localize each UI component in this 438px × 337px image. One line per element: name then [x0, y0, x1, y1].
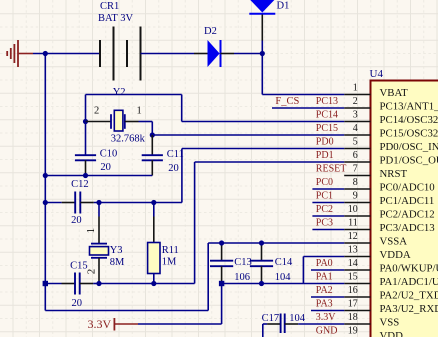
designator CR1: [100, 1, 119, 12]
wire to pin 8: [312, 188, 344, 190]
pin 1 of U4 (pin line): [344, 94, 370, 96]
svg-text:C13: C13: [234, 257, 252, 268]
svg-text:104: 104: [289, 313, 306, 324]
value 106: [234, 272, 250, 283]
designator C14: [275, 257, 293, 268]
node Y3 top junction: [96, 200, 101, 205]
pin number 4: [353, 123, 358, 134]
designator R11: [162, 245, 179, 256]
svg-text:20: 20: [72, 298, 83, 309]
pin name PC1/ADC11: [380, 195, 435, 207]
pin number 1 of Y2: [137, 106, 142, 117]
pin name VBAT: [380, 87, 409, 99]
net label PA2: [316, 285, 333, 296]
pin name PC15/OSC32_OUT: [380, 128, 438, 140]
node square C15 left: [43, 281, 48, 286]
net label PD1: [316, 150, 334, 161]
svg-text:4: 4: [353, 123, 358, 134]
designator C13: [234, 257, 252, 268]
designator C12: [71, 179, 89, 190]
svg-text:PD1: PD1: [316, 150, 334, 161]
net label PC2: [316, 204, 333, 215]
net label RESET: [316, 164, 347, 175]
wire OSC32 top (Y2 left to PC14 riser): [86, 95, 345, 122]
node D1/VBAT junction: [260, 51, 265, 56]
svg-text:2: 2: [94, 106, 99, 117]
svg-text:D1: D1: [277, 1, 290, 12]
svg-text:VDD: VDD: [380, 330, 404, 337]
microcontroller U4 body: [371, 81, 438, 337]
diode D1: [249, 0, 275, 41]
pin name PD0/OSC_IN: [380, 141, 438, 153]
pin name PC14/OSC32_IN: [380, 114, 438, 126]
pin number 7: [353, 164, 358, 175]
capacitor C12: [45, 192, 94, 214]
svg-text:9: 9: [353, 191, 358, 202]
pin name PA2/U2_TXD: [380, 290, 438, 302]
value 8M: [110, 257, 125, 268]
wire left ground rail: [44, 54, 46, 311]
wire to pin 14: [311, 269, 344, 271]
wire to pin 9: [312, 202, 344, 204]
pin number 9: [353, 191, 358, 202]
pin number 14: [348, 258, 358, 269]
value 20 (C12): [71, 215, 82, 226]
pin number 10: [348, 204, 358, 215]
svg-text:10: 10: [348, 204, 358, 215]
pin 4 of U4 (pin line): [344, 134, 370, 136]
pin number 3: [353, 110, 358, 121]
svg-text:7: 7: [353, 164, 358, 175]
svg-text:1M: 1M: [162, 257, 177, 268]
svg-text:PA3: PA3: [316, 299, 333, 310]
capacitor C14: [250, 243, 273, 284]
designator C17: [262, 313, 280, 324]
node square C13 bottom: [219, 281, 224, 286]
designator C10: [100, 149, 118, 160]
pin 15 of U4 (pin line): [344, 283, 370, 285]
pin 8 of U4 (pin line): [344, 188, 370, 190]
capacitor C11: [142, 135, 163, 176]
wire to pin 16: [311, 296, 344, 298]
svg-text:F_CS: F_CS: [275, 96, 299, 107]
svg-text:VBAT: VBAT: [380, 87, 409, 99]
svg-text:104: 104: [275, 272, 292, 283]
svg-text:CR1: CR1: [100, 1, 119, 12]
wire to pin 10: [312, 215, 344, 217]
svg-text:PD0: PD0: [316, 137, 334, 148]
pin number 11: [348, 218, 358, 229]
capacitor C17: [263, 314, 298, 334]
net label PC15: [316, 123, 338, 134]
pin 16 of U4 (pin line): [344, 296, 370, 298]
svg-text:PA1/ADC1/U2_RTS: PA1/ADC1/U2_RTS: [380, 276, 438, 288]
pin number 8: [353, 177, 358, 188]
designator U4: [370, 68, 384, 80]
svg-text:20: 20: [71, 215, 82, 226]
resistor R11: [148, 203, 160, 284]
svg-text:PC15: PC15: [316, 123, 338, 134]
svg-text:R11: R11: [162, 245, 179, 256]
pin name PC13/ANT1_TAMP: [380, 101, 438, 113]
crystal Y2: [86, 110, 139, 131]
node C14 bottom: [259, 281, 264, 286]
svg-text:Y2: Y2: [113, 87, 126, 98]
svg-text:11: 11: [348, 218, 358, 229]
pin 18 of U4 (pin line): [344, 323, 370, 325]
wire C10/C11 ground rail: [45, 175, 152, 177]
net label PA3: [316, 299, 333, 310]
svg-text:1: 1: [353, 83, 358, 94]
svg-text:C15: C15: [70, 260, 88, 271]
capacitor C10: [75, 122, 96, 176]
value 20 (C11): [168, 163, 179, 174]
svg-text:PA2/U2_TXD: PA2/U2_TXD: [380, 290, 438, 302]
pin name VDD: [380, 330, 404, 337]
net label 3.3V: [316, 312, 337, 323]
svg-text:8M: 8M: [110, 257, 125, 268]
net label PC0: [316, 177, 333, 188]
designator Y3: [110, 245, 123, 256]
node R11 bottom: [151, 281, 156, 286]
svg-text:PA0: PA0: [316, 258, 333, 269]
svg-text:12: 12: [348, 231, 358, 242]
pin 6 of U4 (pin line): [344, 161, 370, 163]
net label GND: [316, 326, 338, 337]
svg-text:6: 6: [353, 150, 358, 161]
svg-text:VDDA: VDDA: [380, 249, 411, 261]
pin name PC3/ADC13: [380, 222, 435, 234]
value 104 (C14): [275, 272, 292, 283]
wire 3.3V rail under C13/C14: [222, 257, 345, 284]
svg-text:19: 19: [348, 326, 358, 337]
node C13 top: [219, 240, 224, 245]
capacitor C15: [62, 273, 94, 295]
net label PC3: [316, 218, 333, 229]
node C12 left: [43, 200, 48, 205]
svg-text:14: 14: [348, 258, 358, 269]
svg-text:8: 8: [353, 177, 358, 188]
wire bottom rail segments: [45, 283, 154, 285]
svg-text:PC3: PC3: [316, 218, 333, 229]
value BAT 3V: [98, 13, 134, 24]
svg-text:PC2/ADC12: PC2/ADC12: [380, 209, 435, 221]
svg-text:PC14: PC14: [316, 110, 338, 121]
svg-text:13: 13: [348, 245, 358, 256]
svg-text:BAT 3V: BAT 3V: [98, 13, 134, 24]
pin name PA1/ADC1/U2_RTS: [380, 276, 438, 288]
power port 3.3V: [114, 318, 138, 331]
svg-text:1: 1: [85, 228, 97, 234]
svg-text:C10: C10: [100, 149, 118, 160]
svg-text:D2: D2: [204, 26, 217, 37]
net label PA1: [316, 272, 333, 283]
svg-text:PA2: PA2: [316, 285, 333, 296]
svg-text:PC0: PC0: [316, 177, 333, 188]
value 20 (C15): [72, 298, 83, 309]
wire node to VBAT pin 1: [262, 54, 344, 95]
pin 7 of U4 (pin line): [344, 175, 370, 177]
svg-text:PC15/OSC32_OUT: PC15/OSC32_OUT: [380, 128, 438, 140]
pin 10 of U4 (pin line): [344, 215, 370, 217]
svg-text:18: 18: [348, 312, 358, 323]
svg-text:3.3V: 3.3V: [88, 317, 112, 331]
pin name VDDA: [380, 249, 411, 261]
svg-text:2: 2: [353, 96, 358, 107]
pin number 1: [353, 83, 358, 94]
svg-text:32.768k: 32.768k: [111, 134, 146, 145]
pin 13 of U4 (pin line): [344, 256, 370, 258]
svg-text:15: 15: [348, 272, 358, 283]
pin 17 of U4 (pin line): [344, 310, 370, 312]
pin number 16: [348, 285, 358, 296]
svg-text:RESET: RESET: [316, 164, 347, 175]
pin number 19: [348, 326, 358, 337]
wire C17 down: [262, 324, 264, 337]
diode D2: [194, 40, 234, 67]
net label 3.3V (power port): [88, 317, 112, 331]
svg-text:PC2: PC2: [316, 204, 333, 215]
svg-text:PC0/ADC10: PC0/ADC10: [380, 182, 435, 194]
pin 9 of U4 (pin line): [344, 202, 370, 204]
svg-text:16: 16: [348, 285, 358, 296]
pin name NRST: [380, 168, 408, 180]
pin 2 of U4 (pin line): [344, 107, 370, 109]
net label PC1: [316, 191, 333, 202]
svg-text:C12: C12: [71, 179, 89, 190]
node C14 top: [259, 240, 264, 245]
pin name PC2/ADC12: [380, 209, 435, 221]
net label PC14: [316, 110, 338, 121]
designator C11: [167, 149, 184, 160]
pin number 12: [348, 231, 358, 242]
svg-text:C17: C17: [262, 313, 280, 324]
pin number 2 of Y2: [94, 106, 99, 117]
wire to pin 11: [312, 229, 344, 231]
node rail left: [43, 173, 48, 178]
designator D2: [204, 26, 217, 37]
svg-text:PC13: PC13: [316, 96, 338, 107]
pin name VSS: [380, 317, 400, 329]
net label F_CS: [275, 96, 299, 107]
pin number 17: [348, 299, 358, 310]
svg-text:3.3V: 3.3V: [316, 312, 337, 323]
svg-text:PA0/WKUP/U2_CTS: PA0/WKUP/U2_CTS: [380, 263, 438, 275]
wire VSSA (gnd to pin 12): [45, 243, 344, 311]
wire to pin 17: [311, 310, 344, 312]
wire F_CS to pin 2: [272, 107, 344, 109]
pin 14 of U4 (pin line): [344, 269, 370, 271]
svg-text:20: 20: [100, 162, 111, 173]
designator C15: [70, 260, 88, 271]
pin number 13: [348, 245, 358, 256]
net label PA0: [316, 258, 333, 269]
node R11 top junction: [151, 200, 156, 205]
svg-text:NRST: NRST: [380, 168, 408, 180]
svg-text:PD1/OSC_OUT: PD1/OSC_OUT: [380, 155, 438, 167]
svg-text:3: 3: [353, 110, 358, 121]
svg-text:VSSA: VSSA: [380, 236, 408, 248]
svg-text:VSS: VSS: [380, 317, 400, 329]
pin 5 of U4 (pin line): [344, 148, 370, 150]
svg-text:20: 20: [168, 163, 179, 174]
svg-text:PA1: PA1: [316, 272, 333, 283]
svg-text:5: 5: [353, 137, 358, 148]
wire D1 to node: [261, 41, 263, 54]
designator D1: [277, 1, 290, 12]
wire 3.3V port to C13 rail: [138, 284, 222, 325]
wire Y2 right to PC15: [139, 122, 345, 136]
wire OSC_OUT (PD1): [154, 162, 344, 284]
svg-text:Y3: Y3: [110, 245, 123, 256]
svg-text:1: 1: [137, 106, 142, 117]
pin number 18: [348, 312, 358, 323]
pin number 15: [348, 272, 358, 283]
pin number 1 of Y3 (rotated): [85, 228, 97, 234]
svg-text:PD0/OSC_IN: PD0/OSC_IN: [380, 141, 438, 153]
svg-text:106: 106: [234, 272, 250, 283]
wire C17 to pin 18: [298, 323, 344, 325]
battery CR1: [100, 27, 141, 81]
pin number 2: [353, 96, 358, 107]
wire Y2 left riser: [85, 95, 87, 122]
value 1M: [162, 257, 177, 268]
svg-text:PC1: PC1: [316, 191, 333, 202]
wire OSC_IN row: [94, 149, 344, 203]
svg-text:17: 17: [348, 299, 358, 310]
wire ground to battery: [33, 53, 100, 55]
node PC15/C11 junction: [150, 132, 155, 137]
net label PC13: [316, 96, 338, 107]
svg-text:PC1/ADC11: PC1/ADC11: [380, 195, 435, 207]
svg-text:GND: GND: [316, 326, 338, 337]
svg-text:C14: C14: [275, 257, 293, 268]
pin 3 of U4 (pin line): [344, 121, 370, 123]
svg-text:PC13/ANT1_TAMP: PC13/ANT1_TAMP: [380, 101, 438, 113]
node C10 bottom: [83, 173, 88, 178]
net label PD0: [316, 137, 334, 148]
pin number 5: [353, 137, 358, 148]
pin name VSSA: [380, 236, 408, 248]
value 20 (C10): [100, 162, 111, 173]
svg-text:PA3/U2_RXD: PA3/U2_RXD: [380, 303, 438, 315]
pin name PC0/ADC10: [380, 182, 435, 194]
node battery junction: [43, 51, 48, 56]
wire battery to D2: [141, 53, 195, 55]
pin number 6: [353, 150, 358, 161]
pin name PD1/OSC_OUT: [380, 155, 438, 167]
svg-text:PC14/OSC32_IN: PC14/OSC32_IN: [380, 114, 438, 126]
pin name PA3/U2_RXD: [380, 303, 438, 315]
pin name PA0/WKUP/U2_CTS: [380, 263, 438, 275]
svg-text:PC3/ADC13: PC3/ADC13: [380, 222, 435, 234]
capacitor C13: [210, 243, 233, 284]
value 104 (C17): [289, 313, 306, 324]
designator Y2: [113, 87, 126, 98]
crystal Y3: [90, 203, 109, 284]
wire D2 to node: [234, 53, 262, 55]
svg-text:U4: U4: [370, 68, 384, 80]
ground: [7, 40, 33, 67]
node Y3 bottom: [96, 281, 101, 286]
node Y2 left: [83, 119, 88, 124]
pin 12 of U4 (pin line): [344, 242, 370, 244]
pin number 2 of Y3 (rotated): [86, 269, 98, 275]
value 32.768k: [111, 134, 146, 145]
pin 11 of U4 (pin line): [344, 229, 370, 231]
